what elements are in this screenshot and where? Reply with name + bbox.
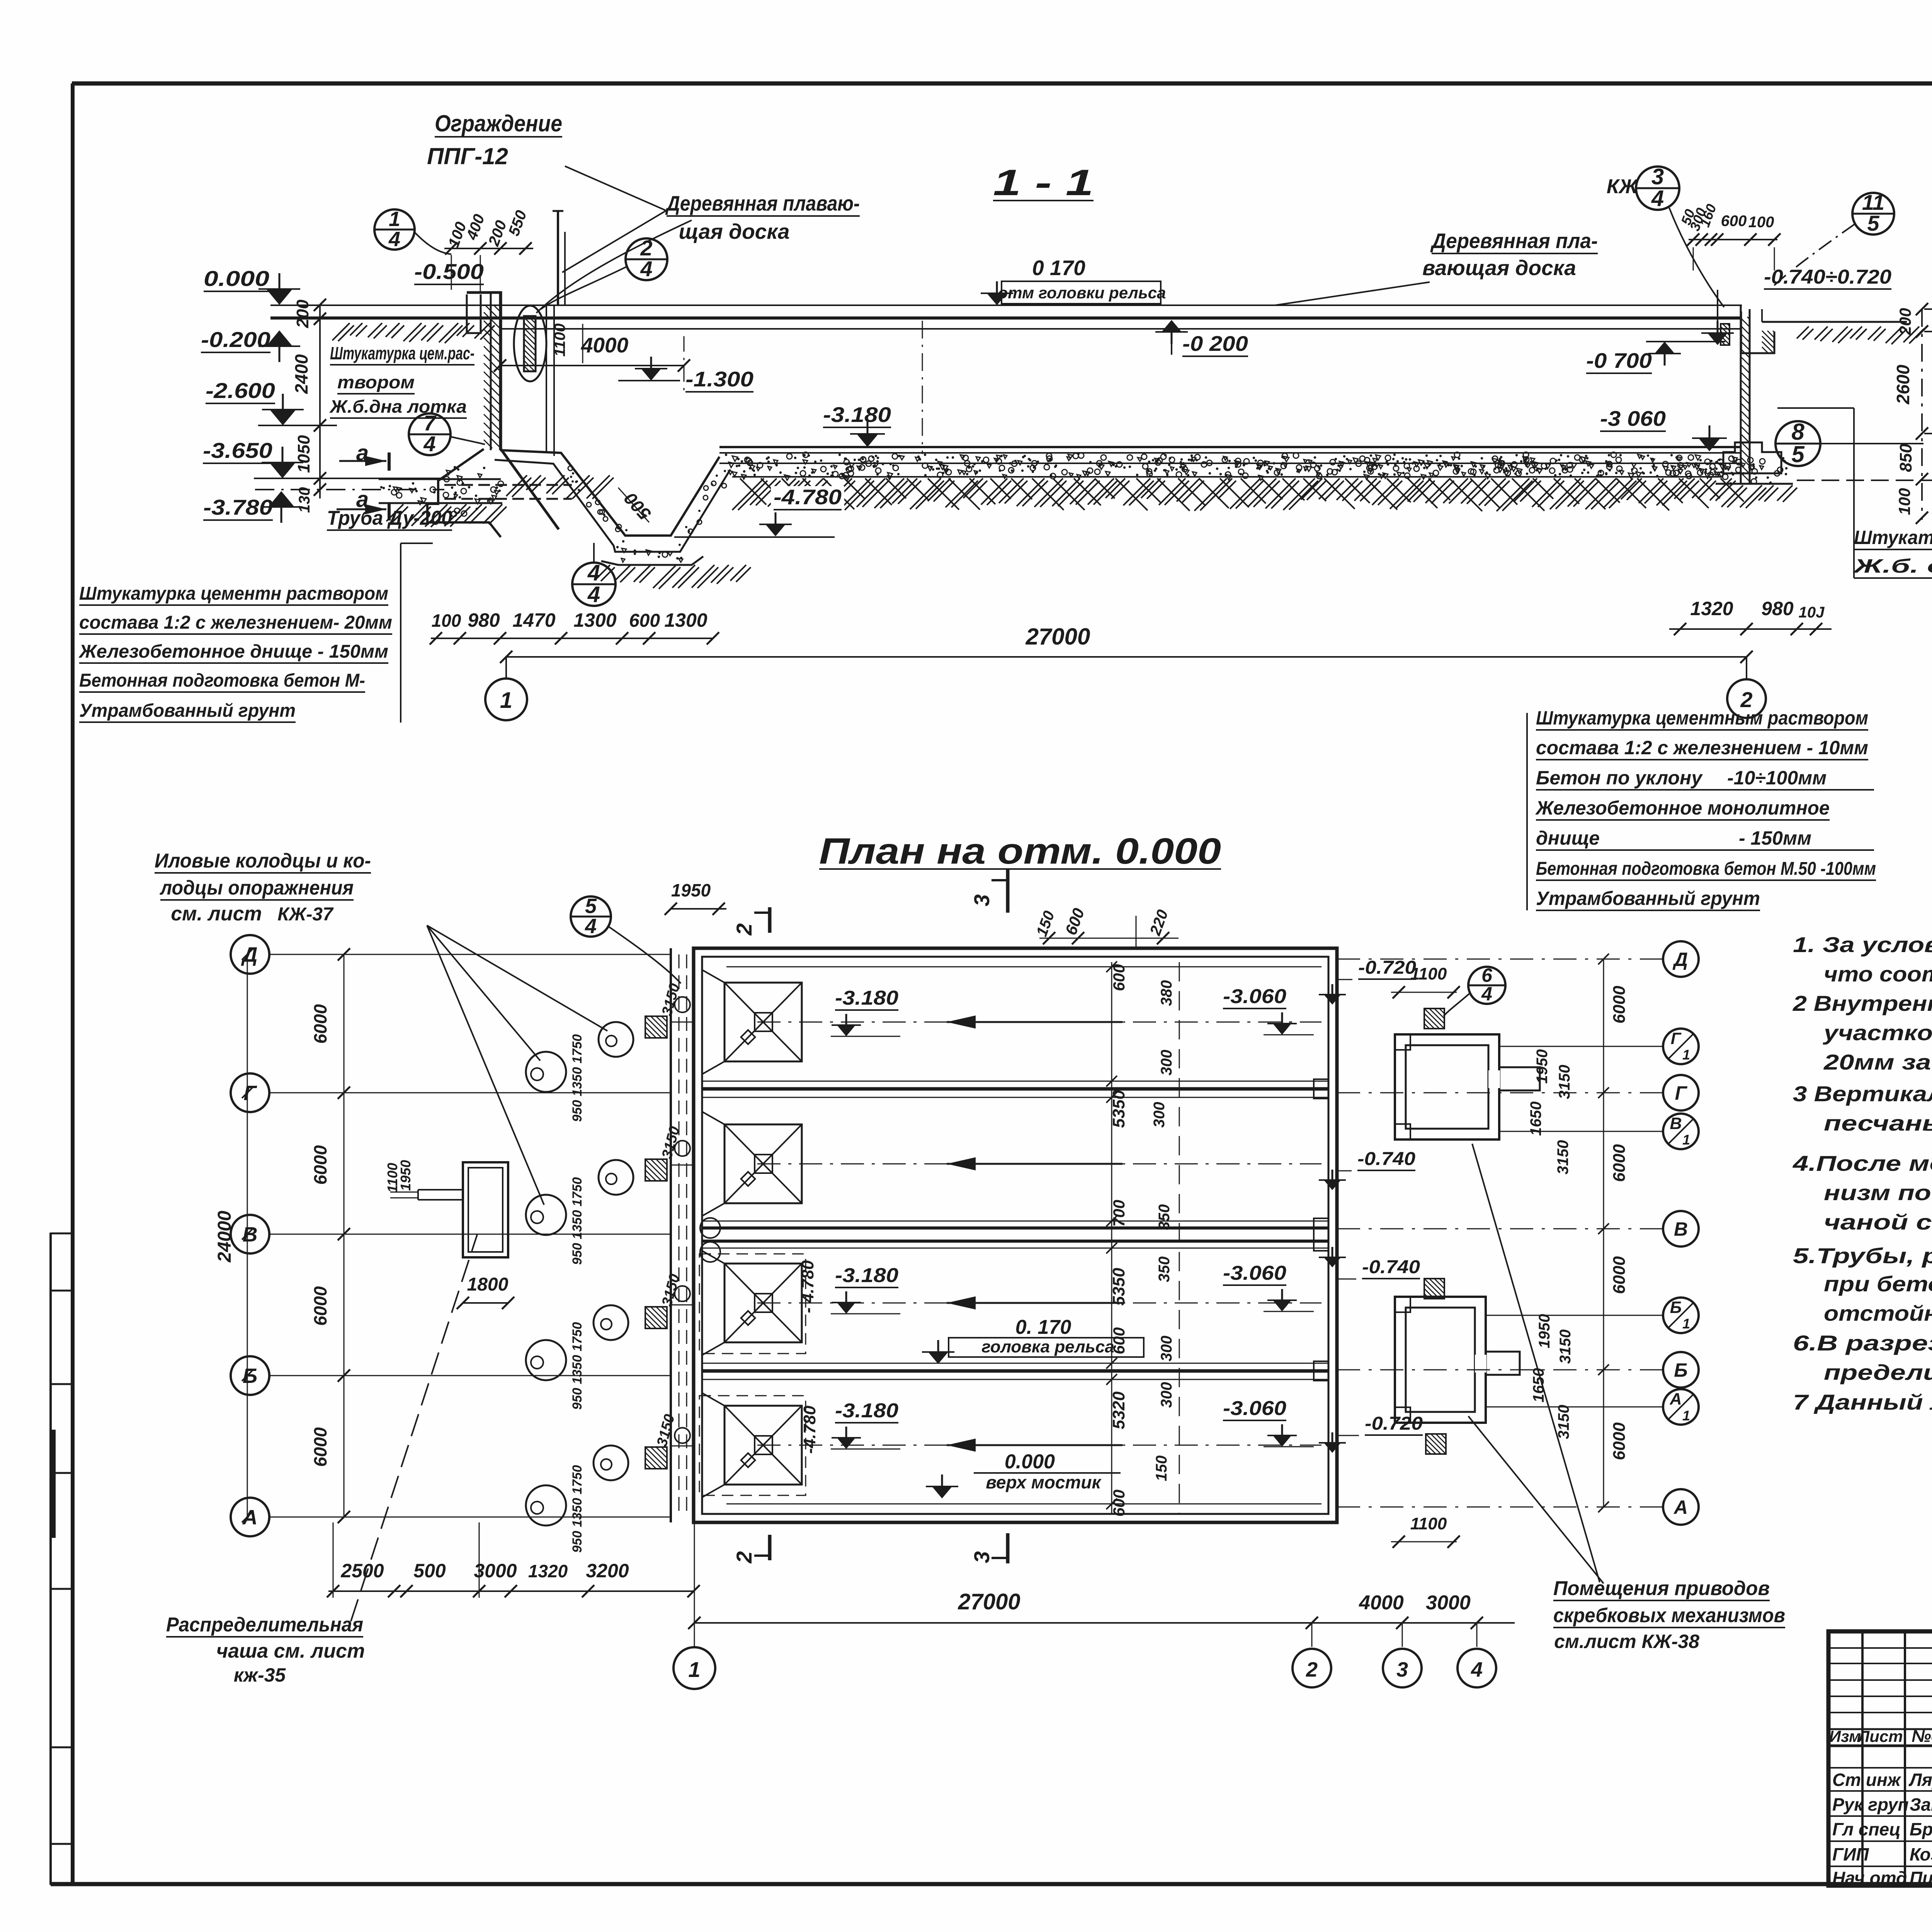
svg-text:4: 4 bbox=[587, 582, 600, 607]
svg-text:5: 5 bbox=[585, 895, 597, 918]
svg-text:1: 1 bbox=[389, 207, 400, 231]
section 1-1 elevations right column bbox=[1797, 265, 1932, 480]
svg-text:Труба Ду-200: Труба Ду-200 bbox=[327, 507, 452, 529]
section 1-1 bottom dim chain right bbox=[1669, 598, 1832, 635]
svg-text:Бетонная подготовка бетон М-: Бетонная подготовка бетон М- bbox=[79, 670, 365, 691]
svg-text:4000: 4000 bbox=[1359, 1592, 1404, 1614]
section 1-1 callout 7/4 bbox=[409, 411, 485, 456]
plan divider wall on grid G bbox=[702, 1079, 1328, 1099]
plan sludge well large at 3896 bbox=[526, 1485, 566, 1526]
svg-text:3: 3 bbox=[969, 894, 994, 906]
plan cut mark 3 bottom bbox=[969, 1533, 1008, 1563]
svg-text:3000: 3000 bbox=[474, 1560, 517, 1582]
svg-text:Ляунзон: Ляунзон bbox=[1908, 1770, 1932, 1790]
svg-text:0.000: 0.000 bbox=[204, 266, 269, 291]
svg-text:2400: 2400 bbox=[291, 354, 311, 394]
svg-text:-3.180: -3.180 bbox=[835, 1400, 898, 1422]
section 1-1 label -0.200 mid bbox=[1155, 320, 1248, 356]
section 1-1 label derevyannaya doska left bbox=[536, 191, 860, 313]
svg-text:В: В bbox=[243, 1223, 258, 1246]
svg-text:- 4.780: - 4.780 bbox=[798, 1260, 817, 1313]
section 1-1 label shtukaturka right bbox=[1777, 408, 1932, 578]
plan right dims rooms 1 bbox=[1527, 1049, 1573, 1175]
svg-text:100: 100 bbox=[1748, 214, 1774, 231]
plan emptying well small at 3786 bbox=[594, 1446, 628, 1480]
section 1-1 left wall footing steps bbox=[427, 449, 503, 537]
svg-text:Г: Г bbox=[1675, 1082, 1688, 1104]
svg-text:-3.060: -3.060 bbox=[1223, 1262, 1286, 1284]
plan gate square right at 3335 bbox=[1424, 1279, 1444, 1299]
plan label -4.780 rotated sec3 bbox=[798, 1260, 817, 1313]
plan title bbox=[819, 831, 1221, 872]
svg-text:Д: Д bbox=[1672, 949, 1688, 970]
plan gate square right at 3737 bbox=[1426, 1434, 1446, 1454]
svg-text:2500: 2500 bbox=[340, 1560, 384, 1582]
plan label 0.170 golovka relsa bbox=[922, 1316, 1144, 1364]
svg-text:В: В bbox=[1674, 1218, 1688, 1240]
section 1-1 elevation -2.600 left bbox=[206, 378, 337, 425]
svg-text:пределительная чаша.: пределительная чаша. bbox=[1824, 1360, 1932, 1384]
svg-text:1. За условную отметку 0.000 п: 1. За условную отметку 0.000 принят верх… bbox=[1793, 932, 1932, 957]
svg-text:27000: 27000 bbox=[957, 1589, 1020, 1614]
plan grid circle V1 right bbox=[1499, 1114, 1699, 1149]
section 1-1 left vertical dim line bbox=[291, 299, 326, 513]
svg-text:верх мостик: верх мостик bbox=[986, 1472, 1102, 1492]
svg-text:2: 2 bbox=[732, 923, 756, 935]
plan label -0.720 bottom bbox=[1337, 1413, 1423, 1435]
plan dashed outline around pyramid section 3 bbox=[699, 1254, 806, 1354]
svg-text:Г: Г bbox=[1671, 1029, 1682, 1048]
plan section 1 sludge pyramid hopper bbox=[702, 970, 802, 1074]
svg-text:Помещения приводов: Помещения приводов bbox=[1553, 1577, 1770, 1600]
svg-text:300: 300 bbox=[1158, 1336, 1175, 1362]
plan grid circle 2 bottom bbox=[1293, 1649, 1331, 1687]
svg-text:100: 100 bbox=[1895, 488, 1913, 515]
svg-text:А: А bbox=[1673, 1497, 1688, 1518]
svg-text:300: 300 bbox=[1158, 1050, 1175, 1076]
plan callout 5/4 bbox=[571, 895, 681, 983]
plan label raspredelitelnaya chasha bbox=[166, 1235, 477, 1686]
section 1-1 label -0.500 bbox=[414, 259, 484, 284]
section 1-1 material list left bbox=[78, 543, 433, 723]
section 1-1 bottom dim chain left bbox=[430, 609, 719, 645]
svg-text:980: 980 bbox=[468, 609, 500, 631]
svg-text:4: 4 bbox=[1651, 186, 1664, 211]
svg-text:5320: 5320 bbox=[1109, 1391, 1128, 1429]
svg-text:№докумен: №докумен bbox=[1912, 1727, 1932, 1746]
svg-text:4000: 4000 bbox=[581, 333, 629, 357]
svg-text:Ограждение: Ограждение bbox=[435, 111, 562, 136]
plan gate square left at 2658 bbox=[645, 1016, 667, 1038]
svg-text:-2.600: -2.600 bbox=[206, 378, 275, 403]
plan tank outer walls bbox=[694, 948, 1337, 1522]
section 1-1 dim 27000 bbox=[500, 624, 1753, 680]
svg-text:Б: Б bbox=[1674, 1359, 1687, 1381]
svg-text:1050: 1050 bbox=[294, 435, 313, 473]
plan dim 1100 top bbox=[1391, 964, 1460, 998]
plan divider wall on grid B bbox=[702, 1361, 1328, 1381]
section 1-1 inner chute wall bbox=[546, 305, 554, 456]
plan annex room 1 (drive room) bbox=[1395, 1034, 1540, 1139]
svg-text:-10÷100мм: -10÷100мм bbox=[1727, 767, 1827, 789]
section 1-1 elevation -3.780 left bbox=[203, 490, 444, 523]
plan grid circle A right bbox=[1337, 1489, 1699, 1525]
svg-text:6000: 6000 bbox=[310, 1145, 330, 1185]
svg-text:5350: 5350 bbox=[1109, 1090, 1128, 1128]
plan grid circle G right bbox=[1337, 1075, 1699, 1111]
plan label -3.180 at 3668 bbox=[831, 1400, 900, 1449]
section 1-1 elevation -0.200 left bbox=[201, 327, 300, 362]
section 1-1 pit sump outline bbox=[495, 450, 730, 565]
svg-text:4: 4 bbox=[585, 915, 597, 938]
plan section 4 centerline and flow arrow bbox=[757, 1439, 1321, 1452]
plan grid circle 1 bottom bbox=[673, 1647, 715, 1689]
svg-text:что соответствует абсолютной о: что соответствует абсолютной отм. bbox=[1824, 962, 1932, 986]
svg-text:-0.740: -0.740 bbox=[1362, 1257, 1420, 1277]
plan grid circle D right bbox=[1337, 941, 1699, 977]
svg-text:1: 1 bbox=[688, 1657, 700, 1682]
section 1-1 elevation 0.000 left bbox=[204, 266, 300, 305]
section 1-1 label Ograzhdenie PPG-12 bbox=[427, 111, 666, 272]
section 1-1 left footing slab bbox=[379, 479, 507, 527]
plan cut mark 2 bottom bbox=[732, 1535, 770, 1564]
plan left dim line 24000 bbox=[214, 954, 247, 1517]
svg-text:-4.780: -4.780 bbox=[774, 485, 842, 509]
plan label -3.060 at 3662 bbox=[1223, 1397, 1314, 1447]
plan label ilovye kolodtsy bbox=[155, 850, 607, 1205]
plan emptying well small at 2690 bbox=[599, 1022, 633, 1057]
plan dim 3150 rotated at 3342 bbox=[659, 1272, 683, 1308]
svg-text:10J: 10J bbox=[1799, 604, 1825, 621]
svg-text:6000: 6000 bbox=[310, 1286, 330, 1326]
svg-text:Изм: Изм bbox=[1829, 1727, 1861, 1745]
svg-text:1950: 1950 bbox=[1536, 1314, 1553, 1349]
svg-text:Б: Б bbox=[1670, 1298, 1682, 1317]
section 1-1 pipe under footing (Truba Du-200) bbox=[444, 485, 572, 499]
svg-text:3200: 3200 bbox=[586, 1560, 629, 1582]
section 1-1 bottom slab lines bbox=[719, 447, 1741, 477]
svg-text:5: 5 bbox=[1791, 441, 1805, 467]
svg-text:600: 600 bbox=[1110, 964, 1128, 991]
section 1-1 bottom slab ground hatch bbox=[732, 478, 1744, 511]
svg-text:-4.780: -4.780 bbox=[800, 1405, 819, 1454]
svg-text:1: 1 bbox=[500, 688, 512, 713]
svg-text:Деревянная плаваю-: Деревянная плаваю- bbox=[665, 191, 860, 215]
svg-text:1300: 1300 bbox=[573, 609, 616, 631]
svg-text:-3.060: -3.060 bbox=[1223, 1397, 1286, 1420]
svg-text:участков стен торкретировать ц: участков стен торкретировать цементным р… bbox=[1822, 1020, 1932, 1045]
section 1-1 callout 8/5 bbox=[1776, 419, 1923, 467]
svg-text:1950: 1950 bbox=[671, 880, 711, 900]
section 1-1 elevation -3.650 left bbox=[203, 438, 444, 478]
svg-text:6000: 6000 bbox=[1610, 1256, 1629, 1294]
section 1-1 tank top rail lines bbox=[270, 305, 1742, 329]
svg-text:6000: 6000 bbox=[1610, 1422, 1629, 1460]
svg-text:5: 5 bbox=[1867, 211, 1879, 235]
svg-text:Ст инж: Ст инж bbox=[1832, 1770, 1901, 1790]
svg-text:1950: 1950 bbox=[1534, 1049, 1551, 1084]
svg-text:-0.740÷0.720: -0.740÷0.720 bbox=[1764, 266, 1891, 288]
svg-text:Г: Г bbox=[243, 1082, 257, 1105]
svg-text:Ж.б. дна лотка: Ж.б. дна лотка bbox=[1852, 555, 1932, 577]
svg-text:Лист: Лист bbox=[1857, 1727, 1903, 1745]
section 1-1 label derevyannaya doska right bbox=[1275, 229, 1598, 305]
svg-text:380: 380 bbox=[1158, 980, 1175, 1006]
plan section 2 centerline and flow arrow bbox=[757, 1157, 1321, 1170]
plan dim 3150 rotated at 2960 bbox=[659, 1125, 683, 1161]
svg-text:150: 150 bbox=[1153, 1456, 1170, 1481]
svg-text:3150: 3150 bbox=[1555, 1405, 1572, 1439]
svg-text:-0 200: -0 200 bbox=[1182, 332, 1248, 355]
plan grid circle 3 bottom bbox=[1383, 1649, 1422, 1687]
svg-text:1: 1 bbox=[1682, 1132, 1690, 1148]
plan grid circle A1 right bbox=[1486, 1389, 1699, 1425]
plan callout 6/4 bbox=[1444, 964, 1505, 1016]
svg-text:350: 350 bbox=[1156, 1204, 1173, 1230]
svg-text:0 170: 0 170 bbox=[1032, 256, 1085, 280]
section 1-1 label -3.060 mid bbox=[1600, 406, 1727, 451]
svg-text:950 1350 1750: 950 1350 1750 bbox=[570, 1465, 585, 1553]
svg-text:Нач отд: Нач отд bbox=[1832, 1868, 1907, 1888]
svg-text:Штукатурка цем.рас-: Штукатурка цем.рас- bbox=[330, 343, 474, 363]
svg-text:Железобетонное монолитное: Железобетонное монолитное bbox=[1535, 797, 1830, 819]
svg-text:200: 200 bbox=[293, 299, 312, 328]
plan grid circle B right bbox=[1337, 1352, 1699, 1388]
svg-text:В: В bbox=[1670, 1114, 1682, 1133]
section 1-1 right vertical dim line bbox=[1893, 303, 1928, 524]
svg-text:Пичахчи: Пичахчи bbox=[1910, 1868, 1932, 1888]
plan grid circle Г left bbox=[231, 1073, 671, 1112]
plan grid circle А left bbox=[231, 1498, 671, 1536]
plan label -3.060 at 3312 bbox=[1223, 1262, 1314, 1311]
svg-text:- 150мм: - 150мм bbox=[1739, 827, 1811, 849]
svg-text:2: 2 bbox=[1306, 1658, 1318, 1681]
svg-text:6000: 6000 bbox=[1610, 986, 1629, 1024]
svg-text:см.лист КЖ-38: см.лист КЖ-38 bbox=[1554, 1631, 1699, 1652]
svg-text:300: 300 bbox=[1151, 1102, 1168, 1128]
svg-text:600: 600 bbox=[629, 611, 660, 631]
plan grid circle V right bbox=[1337, 1211, 1699, 1247]
section 1-1 label 0.170 otm golovki relsa bbox=[981, 256, 1166, 305]
svg-text:700: 700 bbox=[1110, 1200, 1128, 1227]
svg-text:3: 3 bbox=[969, 1551, 994, 1563]
svg-text:Б: Б bbox=[243, 1364, 257, 1388]
svg-text:-3.180: -3.180 bbox=[823, 403, 891, 427]
section 1-1 label -0.740 -0.720 bbox=[1701, 266, 1891, 345]
plan right wall flags bbox=[1319, 984, 1346, 1453]
title block grid bbox=[1828, 1631, 1932, 1886]
svg-text:3150: 3150 bbox=[1556, 1065, 1573, 1099]
svg-text:Штукатурка цементным раствором: Штукатурка цементным раствором bbox=[1536, 707, 1868, 729]
plan label -3.180 at 2600 bbox=[831, 987, 900, 1036]
section 1-1 wooden floating board with oval bbox=[514, 306, 546, 381]
plan label pomeshcheniya privodov bbox=[1468, 1144, 1785, 1652]
svg-text:2 Внутреннюю к воде поверхност: 2 Внутреннюю к воде поверхность стыков и… bbox=[1793, 991, 1932, 1015]
svg-text:План на отм. 0.000: План на отм. 0.000 bbox=[819, 831, 1221, 872]
plan label -3.060 at 2596 bbox=[1223, 985, 1314, 1035]
svg-text:Штукатурка цементн раствором: Штукатурка цементн раствором bbox=[79, 583, 388, 604]
plan dim 3150 rotated at 3705 bbox=[654, 1413, 678, 1449]
svg-text:1100: 1100 bbox=[1410, 964, 1447, 983]
svg-text:-0.740: -0.740 bbox=[1357, 1149, 1415, 1169]
plan dim 1100 bottom bbox=[1391, 1514, 1460, 1548]
plan sludge well large at 3144 bbox=[526, 1195, 566, 1235]
plan well dims at 3915 bbox=[570, 1465, 585, 1553]
plan grid circle G1 right bbox=[1499, 1029, 1699, 1064]
svg-text:500: 500 bbox=[413, 1560, 446, 1582]
plan bottom dim row 1 bbox=[327, 1522, 700, 1598]
svg-text:24000: 24000 bbox=[214, 1211, 235, 1263]
svg-text:КЖ: КЖ bbox=[1607, 175, 1639, 198]
section 1-1 ground line left with hatch bbox=[332, 323, 495, 343]
svg-text:отстойника.: отстойника. bbox=[1824, 1301, 1932, 1325]
section 1-1 grid circle 2 bbox=[1727, 679, 1766, 718]
svg-text:твором: твором bbox=[337, 372, 415, 392]
svg-text:1: 1 bbox=[1682, 1047, 1690, 1063]
svg-text:6000: 6000 bbox=[310, 1427, 330, 1467]
svg-text:Штукатурка цем.раствором: Штукатурка цем.раствором bbox=[1854, 527, 1932, 548]
svg-text:Распределительная: Распределительная bbox=[166, 1614, 363, 1636]
svg-text:600: 600 bbox=[1110, 1327, 1128, 1354]
svg-text:600: 600 bbox=[1721, 213, 1747, 230]
section 1-1 vertical axis dash-dot bbox=[922, 321, 923, 454]
section 1-1 dim 4000 with -1.300 bbox=[494, 323, 753, 392]
svg-text:Д: Д bbox=[241, 943, 258, 966]
section 1-1 material list middle bbox=[1527, 707, 1876, 910]
plan section 3 sludge pyramid hopper bbox=[702, 1251, 802, 1355]
plan label -3.180 at 3318 bbox=[831, 1264, 900, 1314]
plan inner dim chain 2 bbox=[1151, 962, 1179, 1515]
section 1-1 left wall bbox=[467, 293, 559, 529]
svg-text:щая доска: щая доска bbox=[679, 219, 789, 243]
section 1-1 callout 1/4 bbox=[374, 207, 451, 254]
svg-text:Гл спец: Гл спец bbox=[1832, 1819, 1901, 1839]
svg-text:вающая доска: вающая доска bbox=[1422, 256, 1576, 280]
svg-text:кж-35: кж-35 bbox=[234, 1664, 286, 1686]
svg-text:-0 700: -0 700 bbox=[1586, 349, 1652, 372]
svg-text:7 Данный лист комплектен с лис: 7 Данный лист комплектен с листами. КЖ-3 bbox=[1793, 1390, 1932, 1414]
svg-text:-0.720: -0.720 bbox=[1358, 957, 1416, 978]
svg-text:0.000: 0.000 bbox=[1005, 1451, 1055, 1473]
svg-text:5350: 5350 bbox=[1109, 1268, 1128, 1306]
section 1-1 top-left small dims bbox=[444, 208, 533, 294]
svg-text:6.В разрезе 1-1 условно не пок: 6.В разрезе 1-1 условно не показаны коло… bbox=[1793, 1331, 1932, 1355]
plan cut mark 3 top bbox=[969, 869, 1008, 913]
plan left dim line 6000 chain bbox=[310, 954, 344, 1517]
plan grid circle В left bbox=[231, 1215, 671, 1253]
section 1-1 callout KZh 3/4 bbox=[1607, 164, 1724, 307]
svg-text:27000: 27000 bbox=[1026, 624, 1090, 650]
plan gate square right at 2636 bbox=[1424, 1009, 1444, 1029]
plan well dims at 3170 bbox=[570, 1177, 585, 1265]
plan dashed outline around pyramid section 4 bbox=[699, 1396, 806, 1495]
plan section 2 sludge pyramid hopper bbox=[702, 1112, 802, 1216]
svg-text:130: 130 bbox=[296, 487, 313, 513]
svg-text:-3.180: -3.180 bbox=[835, 987, 898, 1009]
svg-text:200: 200 bbox=[1896, 308, 1914, 335]
svg-text:Железобетонное днище - 150мм: Железобетонное днище - 150мм bbox=[78, 641, 388, 662]
svg-text:1320: 1320 bbox=[528, 1561, 568, 1581]
svg-text:-1.300: -1.300 bbox=[685, 367, 753, 391]
svg-text:8: 8 bbox=[1791, 419, 1804, 445]
plan label -4.780 rotated sec4 bbox=[800, 1405, 819, 1454]
svg-text:состава 1:2 с железнением- 20м: состава 1:2 с железнением- 20мм bbox=[79, 612, 392, 633]
fold marks strip left edge bbox=[51, 1233, 73, 1885]
section 1-1 grid circle 1 bbox=[485, 679, 527, 720]
section 1-1 fence post bbox=[553, 211, 565, 304]
svg-text:1100: 1100 bbox=[551, 323, 568, 357]
plan emptying well small at 3047 bbox=[599, 1160, 633, 1195]
svg-text:2600: 2600 bbox=[1893, 364, 1913, 405]
svg-text:20мм за два раза с последующей: 20мм за два раза с последующей затиркой. bbox=[1823, 1050, 1932, 1074]
plan annex room 2 (drive room) bbox=[1395, 1297, 1520, 1423]
plan label -0.720 top bbox=[1337, 957, 1416, 980]
svg-text:2: 2 bbox=[732, 1551, 756, 1563]
svg-text:5.Трубы, расположенные под дни: 5.Трубы, расположенные под днищем отстой… bbox=[1793, 1243, 1932, 1268]
svg-text:1950: 1950 bbox=[398, 1160, 413, 1191]
plan grid circle B1 right bbox=[1486, 1298, 1699, 1333]
section 1-1 top right small dims bbox=[1678, 202, 1781, 270]
plan left distribution channel bbox=[671, 948, 694, 1522]
plan divider walkway on grid V bbox=[700, 1218, 1328, 1262]
plan grid circle Б left bbox=[231, 1356, 671, 1395]
section 1-1 callout 4/4 bbox=[572, 543, 616, 607]
svg-text:950 1350 1750: 950 1350 1750 bbox=[570, 1177, 585, 1265]
svg-text:3150: 3150 bbox=[1554, 1140, 1571, 1175]
plan bottom dim row 2 (27000/4000/3000) bbox=[688, 1522, 1515, 1647]
svg-text:КЖ-37: КЖ-37 bbox=[277, 904, 334, 925]
notes text block bbox=[1793, 932, 1932, 1414]
section 1-1 pit ground hatch below bbox=[595, 565, 751, 589]
plan gate square left at 3028 bbox=[645, 1159, 667, 1181]
section 1-1 ground line right of tank bbox=[1762, 322, 1924, 344]
svg-text:Иловые колодцы и ко-: Иловые колодцы и ко- bbox=[155, 850, 371, 872]
svg-text:-0.200: -0.200 bbox=[201, 327, 270, 352]
plan grid circle 4 bottom bbox=[1458, 1649, 1496, 1687]
section 1-1 bottom slab concrete band bbox=[725, 452, 1742, 480]
svg-text:днище: днище bbox=[1536, 827, 1600, 849]
svg-text:А: А bbox=[1669, 1390, 1682, 1408]
plan right dim chain 6000 bbox=[1598, 954, 1629, 1512]
svg-text:при бетонировании днища и устр: при бетонировании днища и устройстве под… bbox=[1824, 1272, 1932, 1296]
svg-text:0. 170: 0. 170 bbox=[1015, 1316, 1071, 1338]
plan sludge well large at 2774 bbox=[526, 1052, 566, 1092]
svg-text:ППГ-12: ППГ-12 bbox=[427, 143, 508, 169]
svg-text:3150: 3150 bbox=[1557, 1330, 1574, 1364]
svg-text:4.После монтажа и рихтовки рел: 4.После монтажа и рихтовки рельс под скр… bbox=[1793, 1151, 1932, 1175]
plan gate square left at 3410 bbox=[645, 1307, 667, 1328]
plan well dims at 2800 bbox=[570, 1034, 585, 1122]
plan section 3 centerline and flow arrow bbox=[757, 1296, 1321, 1310]
plan top dims bbox=[665, 880, 1179, 948]
title block signature rows bbox=[1832, 1770, 1932, 1888]
svg-text:песчаным раствором.: песчаным раствором. bbox=[1824, 1111, 1932, 1135]
svg-text:состава 1:2 с железнением - 10: состава 1:2 с железнением - 10мм bbox=[1536, 737, 1868, 759]
svg-text:1800: 1800 bbox=[467, 1274, 509, 1295]
svg-text:1100: 1100 bbox=[1410, 1514, 1447, 1533]
section 1-1 title bbox=[993, 162, 1094, 203]
svg-text:Брасловский: Брасловский bbox=[1910, 1819, 1932, 1839]
svg-text:см. лист: см. лист bbox=[171, 903, 262, 925]
plan grid circle Д left bbox=[231, 935, 671, 974]
plan inner dim chain 1 bbox=[1106, 961, 1128, 1517]
svg-text:А: А bbox=[242, 1506, 258, 1529]
plan section 1 centerline and flow arrow bbox=[757, 1015, 1321, 1029]
svg-text:Деревянная пла-: Деревянная пла- bbox=[1430, 229, 1598, 253]
section 1-1 cut mark a lower bbox=[337, 487, 389, 520]
svg-text:1470: 1470 bbox=[512, 609, 555, 631]
section 1-1 label truba Du-200 bbox=[327, 507, 452, 530]
